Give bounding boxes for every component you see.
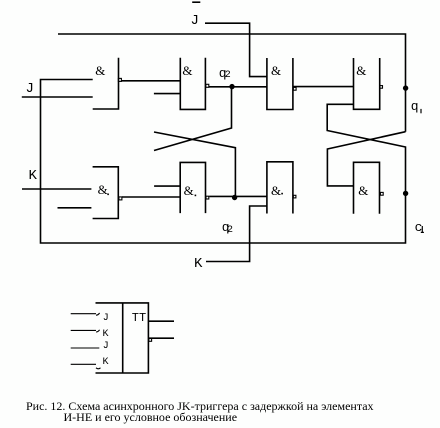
label ampersand of D3 <box>271 63 281 79</box>
symbol output Q-bar <box>148 337 174 339</box>
label q1 <box>411 99 419 114</box>
wire floating input of D5 <box>58 207 92 209</box>
gate D7 <box>267 162 293 214</box>
wire J-bar routed to gate D3 <box>205 23 267 76</box>
node q1 junction dot <box>403 85 408 90</box>
label K1 in symbol <box>103 329 109 340</box>
gate D8 output bubble <box>380 192 383 195</box>
wire floating input of D2 <box>154 93 180 95</box>
label J-bar <box>191 13 199 29</box>
wire top clock rail <box>58 34 406 132</box>
label q2 <box>219 66 227 81</box>
wire gate D5 output to D6 <box>122 196 180 198</box>
gate D8 <box>354 162 380 213</box>
gate D3 <box>267 58 293 110</box>
label dot after D5 ampersand <box>107 194 109 196</box>
wire K routed to gate D7 <box>206 206 267 262</box>
label ampersand of D6 <box>184 183 194 199</box>
wire gate D3 output to D4 <box>294 86 354 88</box>
label ampersand of D8 <box>358 183 368 199</box>
label J2 in symbol <box>103 341 109 352</box>
label q2-bar bottom <box>222 220 230 235</box>
wire cross diagonal down to q2-bar node <box>154 132 235 197</box>
gate D5 (NAND, bottom-left) <box>93 167 119 219</box>
symbol divider <box>122 303 124 373</box>
gate D1 output bubble <box>118 78 121 81</box>
caption line 1 <box>26 399 374 414</box>
label TT <box>132 311 146 325</box>
wire gate D1 output to D2 <box>121 80 180 82</box>
label dot after D7 ampersand <box>281 193 283 195</box>
node q2 junction dot <box>229 84 234 89</box>
wire gate D2 output q2 to D3 <box>209 86 267 88</box>
gate D1 (NAND, top-left) <box>93 58 119 109</box>
symbol input K2 <box>71 364 101 369</box>
gate D2 output bubble <box>206 84 209 87</box>
J-bar overbar <box>192 1 200 3</box>
gate D3 output bubble <box>293 87 296 90</box>
wire gate D6 output q2-bar to D7 <box>209 195 267 197</box>
gate D2 <box>180 58 205 110</box>
label ampersand of D4 <box>356 63 366 79</box>
wire J input <box>22 96 93 98</box>
label c1 subscript stroke <box>421 226 424 232</box>
gate D7 output bubble <box>293 195 296 198</box>
label K2 in symbol <box>103 357 109 368</box>
label J1 in symbol <box>103 313 109 324</box>
label q2 subscript <box>225 70 231 81</box>
label q2-bar subscript <box>227 225 233 236</box>
label ampersand of D2 <box>182 63 192 79</box>
gate D5 output bubble <box>119 197 122 200</box>
gate D6 output bubble <box>206 196 209 199</box>
gate D4 output bubble <box>380 86 383 89</box>
label dot after D6 ampersand <box>195 195 197 197</box>
node q2-bar junction dot <box>232 195 237 200</box>
label ampersand of D7 <box>271 183 281 199</box>
symbol box TT <box>96 303 149 373</box>
wire q1 cross feedback to gate D8 input <box>327 132 405 186</box>
label c1 <box>415 220 423 235</box>
symbol output bubble <box>149 339 152 342</box>
label K bottom input <box>194 256 202 272</box>
wire gate D4 input cross feedback from q1-bar with bottom rail <box>41 80 406 244</box>
label J input <box>26 81 34 97</box>
symbol output Q <box>148 320 174 322</box>
wire floating input of D6 <box>154 185 180 187</box>
wire K input <box>22 188 91 190</box>
gate D6 <box>180 162 205 213</box>
caption line 2 <box>64 410 238 425</box>
label K input <box>29 168 37 184</box>
symbol input K1 <box>71 330 100 332</box>
label ampersand of D5 <box>98 182 108 198</box>
symbol input J2 <box>71 347 100 349</box>
node q1-bar junction dot <box>403 191 408 196</box>
symbol input J1 <box>71 313 100 315</box>
label q1 subscript stroke <box>420 109 422 113</box>
wire q2 down to cross <box>154 87 232 151</box>
gate D4 <box>354 58 380 109</box>
label ampersand of D1 <box>95 63 105 79</box>
